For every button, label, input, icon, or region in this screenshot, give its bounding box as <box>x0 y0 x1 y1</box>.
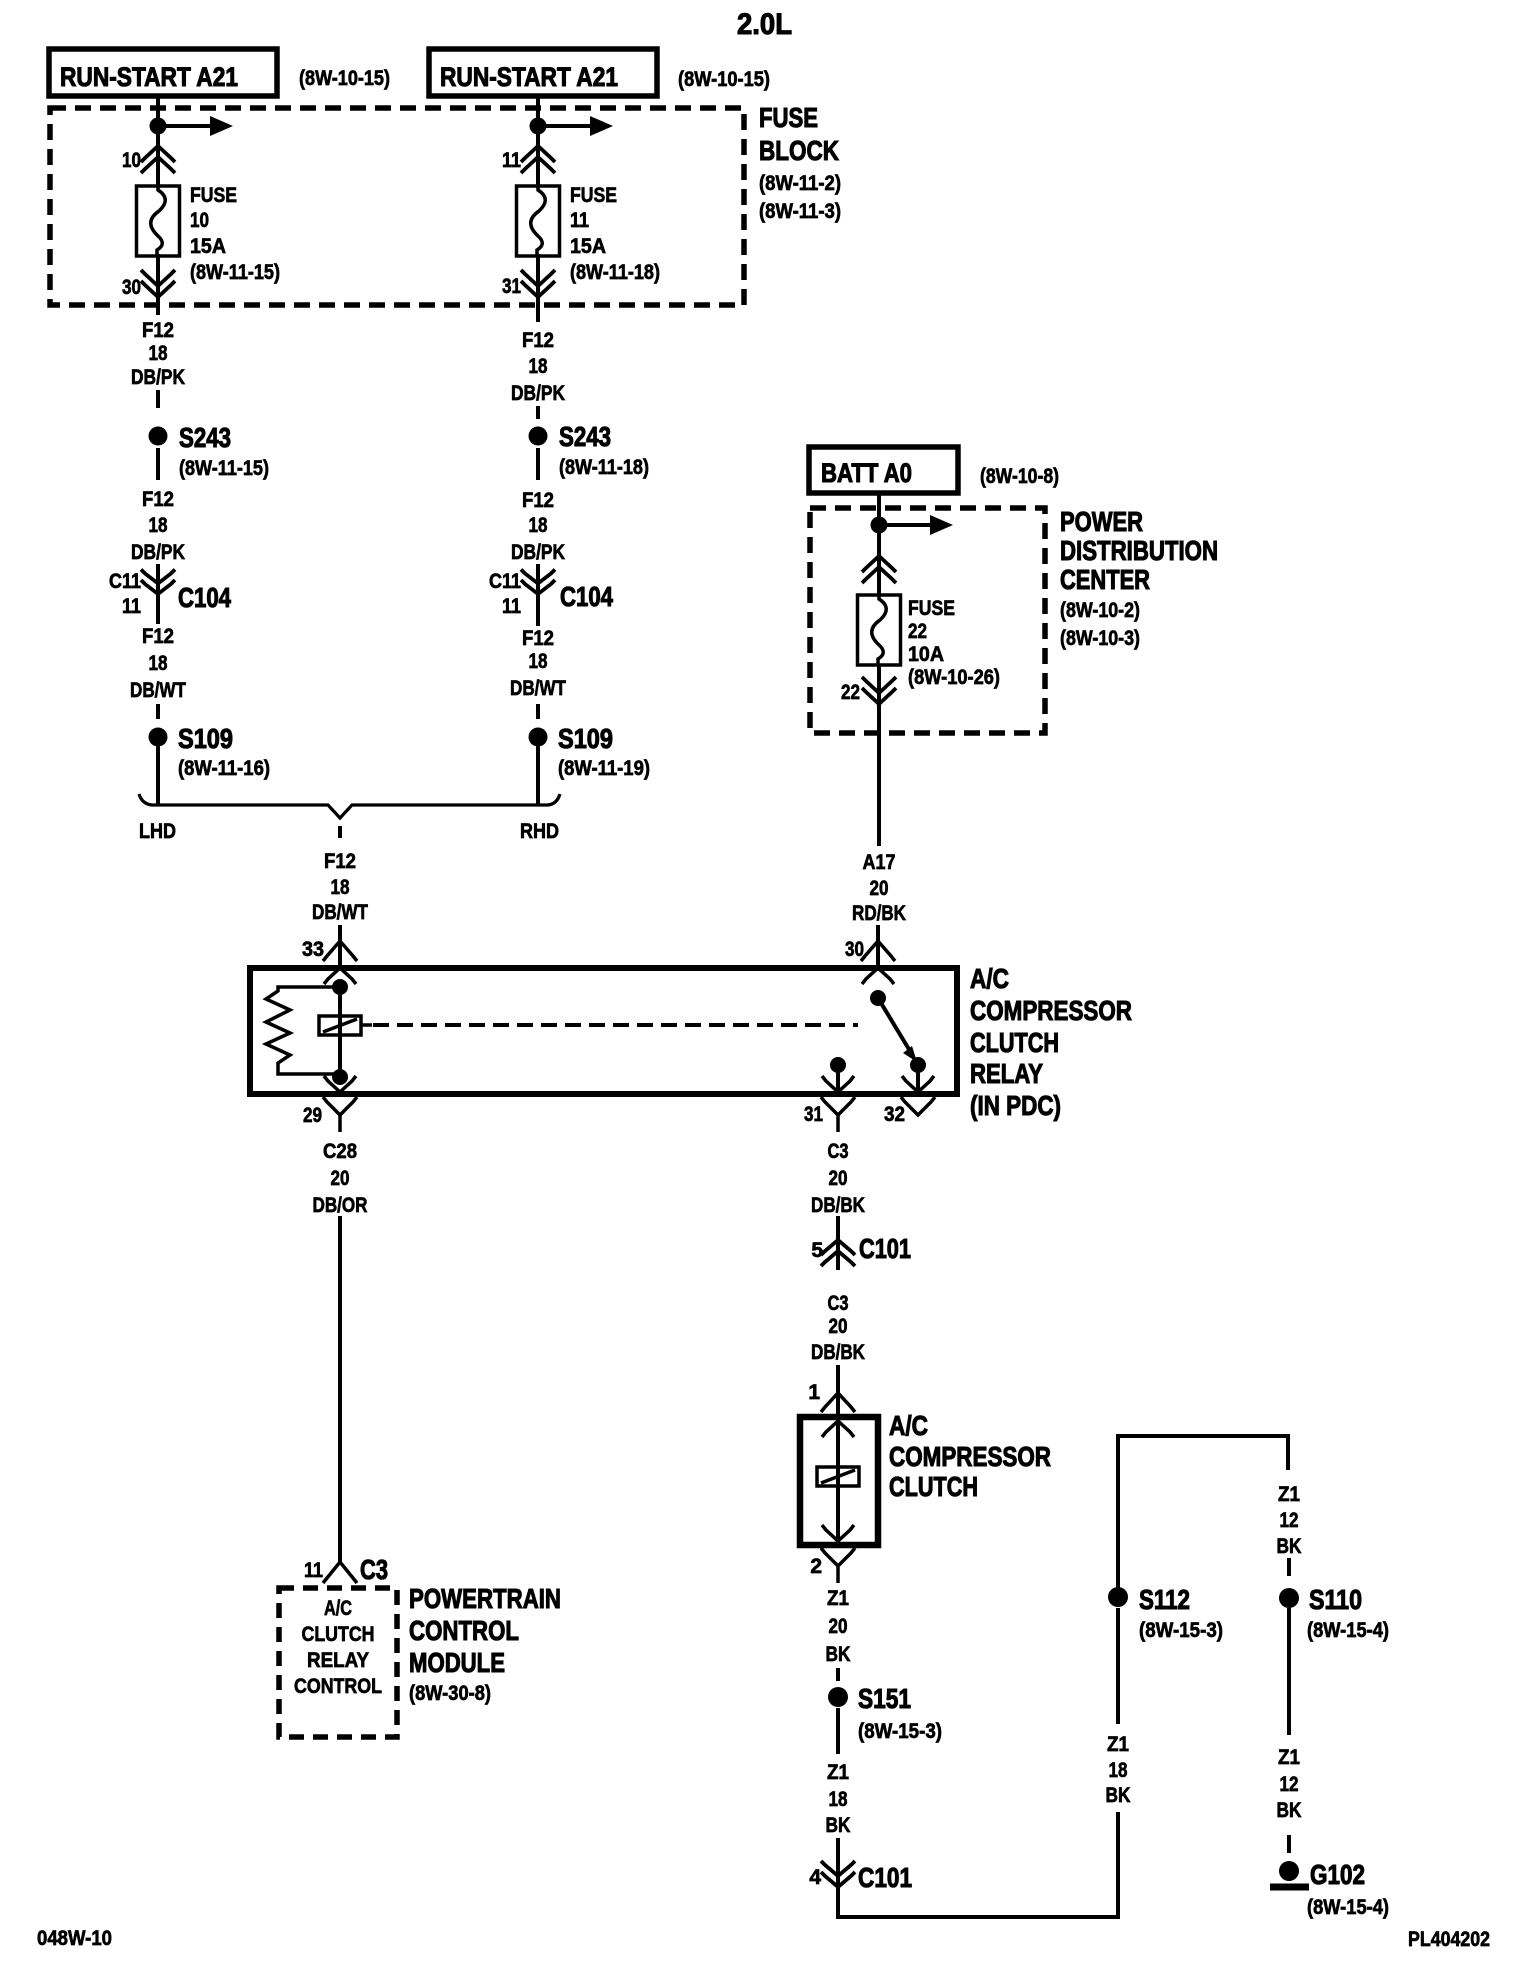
relay switch arm <box>878 998 910 1051</box>
svg-text:12: 12 <box>1280 1509 1299 1532</box>
svg-text:S109: S109 <box>558 723 613 754</box>
svg-text:Z1: Z1 <box>1107 1733 1129 1756</box>
wire ground run top <box>1118 1436 1288 1590</box>
fuse F11 15A <box>517 186 560 256</box>
svg-text:F12: F12 <box>142 625 174 648</box>
svg-text:CLUTCH: CLUTCH <box>302 1623 375 1646</box>
svg-text:DB/WT: DB/WT <box>312 901 368 924</box>
pin 29 chevron inside relay <box>324 1076 356 1092</box>
fuse block boundary (dashed) <box>50 108 744 305</box>
svg-text:18: 18 <box>529 355 548 378</box>
svg-text:11: 11 <box>502 595 521 618</box>
svg-text:A/C: A/C <box>970 963 1009 994</box>
svg-text:(8W-30-8): (8W-30-8) <box>409 1682 491 1705</box>
svg-text:30: 30 <box>122 276 141 299</box>
svg-text:C101: C101 <box>858 1862 912 1893</box>
relay switch output node pin 32 <box>910 1057 926 1073</box>
svg-text:(8W-11-15): (8W-11-15) <box>179 457 269 480</box>
splice S243 (left) <box>149 427 168 446</box>
svg-text:CLUTCH: CLUTCH <box>970 1027 1059 1058</box>
svg-text:DB/BK: DB/BK <box>811 1194 865 1217</box>
svg-text:BK: BK <box>1277 1799 1302 1822</box>
svg-text:S112: S112 <box>1139 1584 1190 1615</box>
wire BATT to fuse 22 <box>877 493 881 597</box>
svg-text:10: 10 <box>122 149 141 172</box>
svg-text:18: 18 <box>331 876 350 899</box>
svg-text:32: 32 <box>884 1103 905 1126</box>
svg-text:G102: G102 <box>1310 1859 1365 1890</box>
svg-text:30: 30 <box>845 938 864 961</box>
svg-text:Z1: Z1 <box>827 1587 849 1610</box>
fuse F10 15A <box>137 186 180 256</box>
ground G102 <box>1279 1861 1299 1881</box>
splice S110 <box>1279 1588 1299 1608</box>
svg-text:18: 18 <box>1109 1759 1128 1782</box>
svg-text:31: 31 <box>804 1103 823 1126</box>
svg-text:Z1: Z1 <box>827 1761 849 1784</box>
svg-text:Z1: Z1 <box>1278 1483 1300 1506</box>
svg-text:BK: BK <box>1277 1535 1302 1558</box>
svg-text:(8W-10-26): (8W-10-26) <box>908 666 1000 689</box>
svg-text:C3: C3 <box>828 1292 849 1315</box>
splice S243 (right) <box>529 427 548 446</box>
svg-text:10: 10 <box>190 209 209 232</box>
svg-text:15A: 15A <box>190 235 226 258</box>
junction with arrow (right) <box>530 118 547 135</box>
svg-text:POWER: POWER <box>1060 506 1143 537</box>
node RUN-START A21 (left) <box>49 49 277 96</box>
svg-text:C104: C104 <box>560 581 613 612</box>
splice S112 <box>1108 1587 1128 1607</box>
svg-text:RUN-START A21: RUN-START A21 <box>60 62 238 92</box>
pin 33 chevron inside relay <box>324 968 356 984</box>
wire fuse 11 output <box>536 254 540 322</box>
svg-text:C101: C101 <box>859 1233 911 1264</box>
wire A21 to fuse 11 <box>536 96 540 188</box>
node BATT A0 <box>809 447 958 493</box>
wire relay 29 to PCM <box>338 1216 342 1564</box>
svg-text:FUSE: FUSE <box>759 102 818 133</box>
svg-text:(8W-15-3): (8W-15-3) <box>1139 1619 1223 1642</box>
svg-text:LHD: LHD <box>139 820 176 843</box>
svg-text:PL404202: PL404202 <box>1408 1928 1490 1951</box>
svg-text:11: 11 <box>570 209 589 232</box>
brace LHD-RHD merge <box>139 794 560 818</box>
svg-text:2: 2 <box>810 1555 822 1578</box>
svg-text:RD/BK: RD/BK <box>852 902 906 925</box>
svg-text:DISTRIBUTION: DISTRIBUTION <box>1060 535 1218 566</box>
svg-text:(8W-15-4): (8W-15-4) <box>1307 1619 1389 1642</box>
svg-text:1: 1 <box>808 1381 820 1404</box>
junction with arrow (left) <box>150 118 167 135</box>
svg-text:C11: C11 <box>489 570 521 593</box>
relay coil node bottom <box>332 1069 348 1085</box>
power distribution center boundary (dashed) <box>810 508 1045 733</box>
wire below S243 (right) <box>536 448 540 480</box>
splice S151 <box>828 1687 848 1707</box>
wire A17 20 RD/BK <box>877 738 881 846</box>
svg-text:(8W-10-2): (8W-10-2) <box>1060 599 1140 622</box>
svg-text:33: 33 <box>302 938 324 961</box>
wire fuse 10 output <box>156 254 160 315</box>
wire below S151 <box>836 1708 840 1754</box>
svg-text:S110: S110 <box>1309 1584 1362 1615</box>
relay coil <box>319 1016 361 1035</box>
svg-text:COMPRESSOR: COMPRESSOR <box>889 1441 1051 1472</box>
svg-text:COMPRESSOR: COMPRESSOR <box>970 995 1132 1026</box>
svg-text:DB/PK: DB/PK <box>131 366 185 389</box>
A/C compressor clutch <box>800 1417 878 1545</box>
wire below S243 (left) <box>156 448 160 480</box>
wire below S112 <box>1116 1608 1120 1724</box>
svg-text:S151: S151 <box>858 1683 911 1714</box>
svg-text:(8W-15-4): (8W-15-4) <box>1307 1896 1389 1919</box>
svg-text:18: 18 <box>149 514 168 537</box>
svg-text:BATT A0: BATT A0 <box>821 458 912 488</box>
svg-text:BK: BK <box>1106 1784 1131 1807</box>
svg-text:20: 20 <box>829 1167 848 1190</box>
svg-text:DB/WT: DB/WT <box>510 677 566 700</box>
wire ground run bottom <box>838 1890 1118 1917</box>
svg-text:BK: BK <box>826 1814 851 1837</box>
svg-text:F12: F12 <box>522 489 554 512</box>
svg-text:F12: F12 <box>142 488 174 511</box>
powertrain control module boundary (dashed) <box>279 1588 397 1737</box>
connector chevron into fuse 22 <box>862 556 896 583</box>
svg-text:C11: C11 <box>109 570 141 593</box>
wire to C101 pin 4 <box>836 1838 840 1862</box>
svg-text:29: 29 <box>303 1104 322 1127</box>
svg-text:(8W-10-15): (8W-10-15) <box>678 68 770 91</box>
relay switch common node <box>870 990 886 1006</box>
svg-text:15A: 15A <box>570 235 606 258</box>
svg-text:(8W-10-3): (8W-10-3) <box>1060 627 1140 650</box>
svg-text:18: 18 <box>529 650 548 673</box>
svg-text:22: 22 <box>841 681 860 704</box>
svg-text:(8W-11-18): (8W-11-18) <box>559 456 649 479</box>
svg-text:RHD: RHD <box>520 820 559 843</box>
svg-text:CONTROL: CONTROL <box>409 1615 519 1646</box>
splice S109 (right) <box>529 728 548 747</box>
svg-text:(8W-11-19): (8W-11-19) <box>558 757 650 780</box>
svg-text:A17: A17 <box>863 851 896 874</box>
svg-text:FUSE: FUSE <box>570 184 617 207</box>
svg-text:2.0L: 2.0L <box>737 8 792 41</box>
svg-text:C3: C3 <box>828 1140 849 1163</box>
svg-text:11: 11 <box>304 1559 323 1582</box>
svg-text:18: 18 <box>829 1788 848 1811</box>
svg-text:DB/PK: DB/PK <box>511 541 565 564</box>
svg-text:F12: F12 <box>522 329 554 352</box>
svg-text:RELAY: RELAY <box>970 1058 1043 1089</box>
svg-text:31: 31 <box>502 275 521 298</box>
svg-text:(8W-10-15): (8W-10-15) <box>299 67 390 90</box>
svg-text:(8W-11-2): (8W-11-2) <box>759 172 841 195</box>
svg-text:Z1: Z1 <box>1278 1746 1300 1769</box>
svg-text:18: 18 <box>149 652 168 675</box>
svg-text:DB/BK: DB/BK <box>811 1341 865 1364</box>
wire to compressor clutch <box>836 1365 840 1417</box>
relay switch output node pin 31 <box>830 1057 846 1073</box>
svg-text:20: 20 <box>829 1615 848 1638</box>
svg-text:(8W-11-18): (8W-11-18) <box>570 261 660 284</box>
svg-text:CONTROL: CONTROL <box>294 1675 382 1698</box>
svg-text:18: 18 <box>529 514 548 537</box>
svg-text:CENTER: CENTER <box>1060 564 1150 595</box>
svg-text:C104: C104 <box>178 582 231 613</box>
svg-text:RELAY: RELAY <box>307 1649 369 1672</box>
node RUN-START A21 (right) <box>429 49 657 96</box>
svg-text:10A: 10A <box>908 643 944 666</box>
svg-text:RUN-START A21: RUN-START A21 <box>440 62 618 92</box>
wire below S110 <box>1287 1608 1291 1735</box>
svg-text:(IN PDC): (IN PDC) <box>970 1090 1061 1121</box>
pin 30 chevron inside relay <box>862 968 894 984</box>
wire S112 to ground run <box>1116 1812 1120 1919</box>
svg-text:11: 11 <box>122 595 141 618</box>
svg-text:20: 20 <box>829 1315 848 1338</box>
wire S109 to brace (right) <box>536 746 540 806</box>
svg-text:18: 18 <box>149 342 168 365</box>
junction with arrow (PDC) <box>871 517 888 534</box>
svg-text:C3: C3 <box>360 1554 388 1585</box>
svg-text:F12: F12 <box>522 627 554 650</box>
svg-text:BK: BK <box>826 1643 851 1666</box>
svg-text:A/C: A/C <box>324 1597 352 1620</box>
svg-text:20: 20 <box>870 877 889 900</box>
svg-text:(8W-10-8): (8W-10-8) <box>980 465 1059 488</box>
svg-text:12: 12 <box>1280 1773 1299 1796</box>
svg-text:BLOCK: BLOCK <box>759 135 839 166</box>
svg-text:S243: S243 <box>179 422 231 453</box>
svg-text:DB/WT: DB/WT <box>130 679 186 702</box>
relay suppression resistor <box>266 987 340 1074</box>
svg-text:20: 20 <box>331 1167 350 1190</box>
svg-text:(8W-11-15): (8W-11-15) <box>190 261 280 284</box>
svg-text:MODULE: MODULE <box>409 1647 505 1678</box>
wire A21 to fuse 10 <box>156 96 160 188</box>
svg-text:A/C: A/C <box>889 1410 928 1441</box>
wire S109 to brace (left) <box>156 746 160 806</box>
svg-text:S109: S109 <box>178 723 233 754</box>
svg-text:11: 11 <box>502 149 521 172</box>
svg-text:DB/PK: DB/PK <box>511 382 565 405</box>
svg-text:5: 5 <box>811 1239 823 1262</box>
svg-text:DB/OR: DB/OR <box>313 1194 368 1217</box>
svg-text:F12: F12 <box>324 850 356 873</box>
relay actuation dashed link <box>361 1023 372 1027</box>
svg-text:DB/PK: DB/PK <box>131 541 185 564</box>
wire below brace <box>338 826 342 838</box>
svg-text:C28: C28 <box>323 1140 357 1163</box>
fuse F22 10A <box>858 595 901 665</box>
svg-text:4: 4 <box>809 1866 821 1889</box>
svg-text:(8W-11-16): (8W-11-16) <box>178 757 270 780</box>
svg-text:FUSE: FUSE <box>190 184 237 207</box>
wire relay 31 to C101 <box>836 1216 840 1270</box>
svg-text:F12: F12 <box>142 319 174 342</box>
relay coil node top <box>332 979 348 995</box>
svg-text:CLUTCH: CLUTCH <box>889 1471 978 1502</box>
svg-text:(8W-11-3): (8W-11-3) <box>759 200 841 223</box>
wire fuse 22 to PDC edge <box>877 665 881 738</box>
svg-text:22: 22 <box>908 620 927 643</box>
relay A/C compressor clutch relay (in PDC) <box>250 968 957 1094</box>
svg-text:POWERTRAIN: POWERTRAIN <box>409 1583 561 1614</box>
svg-text:FUSE: FUSE <box>908 597 955 620</box>
splice S109 (left) <box>149 728 168 747</box>
svg-text:048W-10: 048W-10 <box>37 1927 112 1950</box>
svg-text:S243: S243 <box>559 421 611 452</box>
svg-text:(8W-15-3): (8W-15-3) <box>858 1720 942 1743</box>
